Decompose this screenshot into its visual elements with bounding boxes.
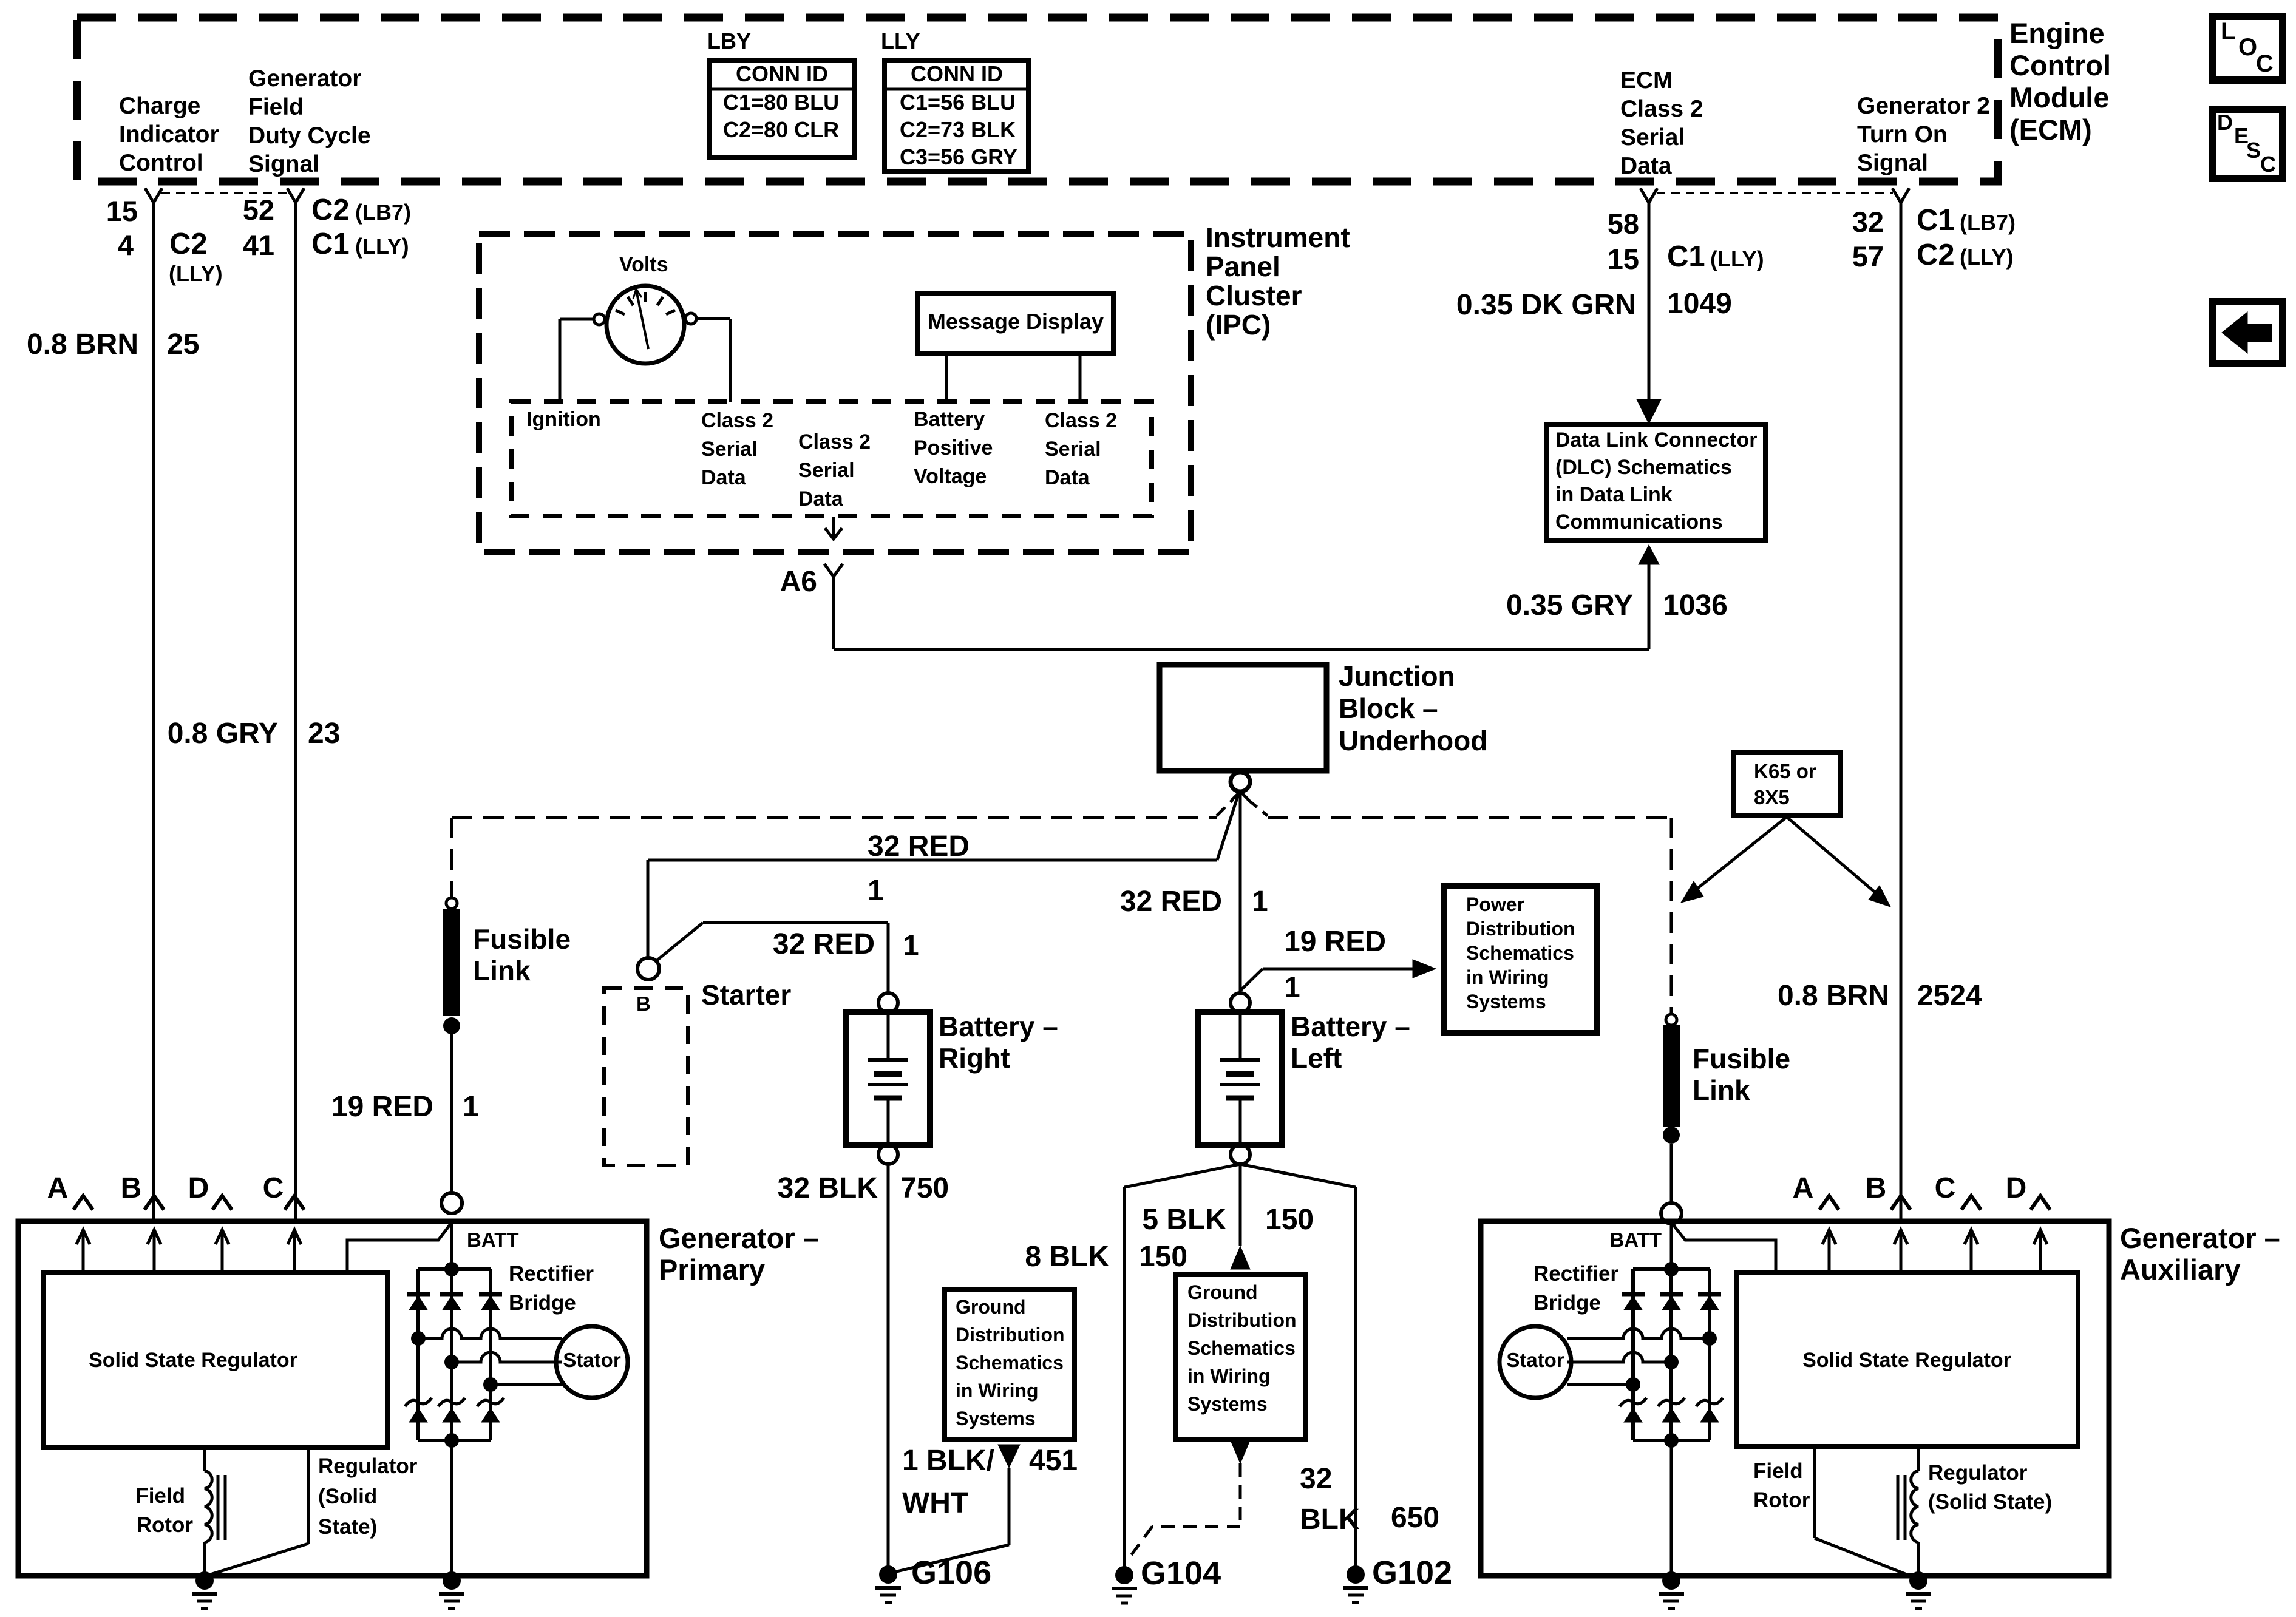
svg-text:Module: Module <box>2009 81 2109 114</box>
svg-text:Message Display: Message Display <box>928 309 1104 334</box>
svg-text:C2: C2 <box>169 228 208 260</box>
svg-text:451: 451 <box>1029 1445 1078 1477</box>
svg-text:CONN ID: CONN ID <box>911 61 1003 86</box>
svg-text:WHT: WHT <box>902 1487 968 1519</box>
svg-text:Class 2: Class 2 <box>1045 409 1117 432</box>
svg-text:BATT: BATT <box>467 1229 519 1251</box>
svg-text:Field: Field <box>1753 1459 1803 1483</box>
svg-text:A: A <box>47 1172 69 1204</box>
svg-text:BATT: BATT <box>1609 1229 1662 1251</box>
svg-text:Volts: Volts <box>619 253 668 276</box>
svg-text:C1=80 BLU: C1=80 BLU <box>723 90 839 115</box>
svg-text:C: C <box>1935 1172 1956 1204</box>
svg-text:A6: A6 <box>780 566 817 598</box>
svg-text:Regulator: Regulator <box>1928 1461 2028 1485</box>
svg-text:(IPC): (IPC) <box>1206 309 1271 341</box>
svg-text:Data: Data <box>1620 153 1672 179</box>
svg-text:Generator –: Generator – <box>2120 1222 2280 1254</box>
svg-text:K65 or: K65 or <box>1754 760 1816 782</box>
svg-text:Starter: Starter <box>701 979 791 1011</box>
svg-text:15: 15 <box>106 195 138 227</box>
svg-text:Regulator: Regulator <box>318 1454 418 1478</box>
svg-text:Bridge: Bridge <box>509 1291 576 1315</box>
svg-text:C3=56 GRY: C3=56 GRY <box>900 144 1017 169</box>
svg-text:(ECM): (ECM) <box>2009 114 2092 146</box>
svg-text:G106: G106 <box>911 1554 991 1591</box>
svg-text:0.35 DK GRN: 0.35 DK GRN <box>1456 289 1636 321</box>
svg-text:0.35 GRY: 0.35 GRY <box>1506 589 1633 622</box>
svg-text:B: B <box>1866 1172 1887 1204</box>
svg-text:32 RED: 32 RED <box>773 928 875 960</box>
svg-text:1: 1 <box>868 875 884 907</box>
svg-text:LLY: LLY <box>881 29 920 53</box>
svg-text:Communications: Communications <box>1555 510 1723 534</box>
svg-text:(LLY): (LLY) <box>355 234 409 259</box>
svg-text:D: D <box>2217 110 2233 135</box>
svg-text:C: C <box>2256 50 2274 77</box>
svg-text:Signal: Signal <box>248 151 319 177</box>
svg-text:C1: C1 <box>1917 204 1955 237</box>
svg-text:Link: Link <box>1693 1074 1750 1106</box>
svg-text:Fusible: Fusible <box>1693 1043 1790 1074</box>
svg-text:Battery –: Battery – <box>1291 1011 1410 1042</box>
svg-text:Data Link Connector: Data Link Connector <box>1555 429 1757 452</box>
svg-text:Generator: Generator <box>248 66 361 92</box>
svg-text:Voltage: Voltage <box>914 465 987 488</box>
svg-text:Solid State Regulator: Solid State Regulator <box>89 1349 297 1372</box>
svg-text:C1: C1 <box>311 228 350 260</box>
svg-text:Schematics: Schematics <box>1187 1337 1296 1359</box>
svg-text:Link: Link <box>473 955 531 986</box>
svg-text:Turn On: Turn On <box>1857 121 1948 147</box>
svg-text:in Wiring: in Wiring <box>1466 966 1549 988</box>
svg-text:CONN ID: CONN ID <box>736 61 828 86</box>
svg-text:4: 4 <box>118 229 134 261</box>
svg-text:Positive: Positive <box>914 436 993 459</box>
svg-text:Stator: Stator <box>563 1349 621 1371</box>
svg-text:8 BLK: 8 BLK <box>1025 1241 1109 1273</box>
svg-text:8X5: 8X5 <box>1754 786 1790 808</box>
svg-text:Class 2: Class 2 <box>1620 96 1703 122</box>
svg-text:Field: Field <box>248 94 304 120</box>
svg-text:1: 1 <box>463 1091 479 1123</box>
svg-text:Fusible: Fusible <box>473 923 571 955</box>
svg-text:Junction: Junction <box>1339 660 1455 692</box>
svg-text:0.8 BRN: 0.8 BRN <box>1778 980 1889 1012</box>
svg-text:Serial: Serial <box>1620 124 1685 151</box>
svg-text:32 RED: 32 RED <box>868 830 970 863</box>
svg-text:(LLY): (LLY) <box>1710 246 1764 271</box>
svg-text:Schematics: Schematics <box>1466 942 1574 964</box>
svg-text:Panel: Panel <box>1206 251 1280 282</box>
svg-text:Distribution: Distribution <box>956 1324 1065 1346</box>
svg-text:D: D <box>188 1172 209 1204</box>
svg-text:Data: Data <box>701 466 747 489</box>
svg-text:Serial: Serial <box>701 438 758 461</box>
svg-text:Data: Data <box>798 487 844 510</box>
svg-text:Control: Control <box>2009 49 2111 81</box>
svg-text:Generator 2: Generator 2 <box>1857 93 1990 119</box>
svg-text:in Wiring: in Wiring <box>956 1380 1039 1402</box>
svg-text:Block –: Block – <box>1339 693 1438 724</box>
svg-text:LBY: LBY <box>707 29 751 53</box>
svg-text:5 BLK: 5 BLK <box>1142 1204 1226 1236</box>
svg-text:Generator –: Generator – <box>659 1222 819 1254</box>
svg-text:(LB7): (LB7) <box>355 200 411 225</box>
svg-text:150: 150 <box>1265 1204 1314 1236</box>
svg-text:Class 2: Class 2 <box>798 430 871 453</box>
svg-text:32: 32 <box>1300 1463 1332 1495</box>
svg-text:D: D <box>2006 1172 2027 1204</box>
svg-text:1 BLK/: 1 BLK/ <box>902 1445 994 1477</box>
svg-text:Ignition: Ignition <box>526 408 601 431</box>
svg-text:Underhood: Underhood <box>1339 725 1487 756</box>
svg-text:C2: C2 <box>1917 239 1955 271</box>
svg-text:Rectifier: Rectifier <box>1533 1262 1618 1286</box>
svg-text:L: L <box>2221 18 2235 45</box>
svg-text:41: 41 <box>243 229 274 261</box>
svg-text:Rotor: Rotor <box>137 1513 194 1537</box>
svg-text:in Data Link: in Data Link <box>1555 483 1673 506</box>
svg-text:2524: 2524 <box>1917 980 1982 1012</box>
svg-text:B: B <box>121 1172 142 1204</box>
svg-text:S: S <box>2246 138 2261 163</box>
svg-text:150: 150 <box>1139 1241 1187 1273</box>
svg-text:(LLY): (LLY) <box>169 261 223 286</box>
svg-text:G102: G102 <box>1372 1554 1452 1591</box>
svg-text:Right: Right <box>939 1042 1010 1074</box>
svg-text:32: 32 <box>1852 206 1884 238</box>
svg-text:1: 1 <box>1252 886 1268 918</box>
svg-text:Distribution: Distribution <box>1187 1309 1297 1331</box>
svg-text:C1=56 BLU: C1=56 BLU <box>900 90 1016 115</box>
svg-text:Control: Control <box>119 150 203 176</box>
svg-text:(DLC) Schematics: (DLC) Schematics <box>1555 456 1732 479</box>
svg-text:Primary: Primary <box>659 1253 765 1286</box>
svg-text:52: 52 <box>243 194 274 226</box>
svg-text:Rectifier: Rectifier <box>509 1262 594 1286</box>
svg-text:1: 1 <box>903 930 919 962</box>
svg-text:1036: 1036 <box>1663 589 1728 622</box>
svg-text:Serial: Serial <box>798 459 855 482</box>
svg-text:Auxiliary: Auxiliary <box>2120 1253 2241 1286</box>
svg-text:15: 15 <box>1608 243 1639 275</box>
svg-text:C2=73 BLK: C2=73 BLK <box>900 117 1016 142</box>
svg-text:(Solid State): (Solid State) <box>1928 1490 2052 1514</box>
svg-text:Distribution: Distribution <box>1466 918 1575 940</box>
svg-text:BLK: BLK <box>1300 1503 1360 1536</box>
svg-text:in Wiring: in Wiring <box>1187 1365 1271 1387</box>
svg-text:B: B <box>636 992 651 1015</box>
svg-text:Charge: Charge <box>119 93 200 119</box>
svg-text:23: 23 <box>308 717 340 750</box>
svg-text:0.8 GRY: 0.8 GRY <box>168 717 278 750</box>
svg-text:(LB7): (LB7) <box>1960 210 2016 235</box>
svg-text:Stator: Stator <box>1506 1349 1564 1371</box>
svg-text:C1: C1 <box>1667 240 1705 273</box>
svg-text:Engine: Engine <box>2009 17 2105 49</box>
svg-text:Ground: Ground <box>956 1296 1026 1318</box>
svg-text:32 RED: 32 RED <box>1120 886 1222 918</box>
svg-text:25: 25 <box>167 328 199 361</box>
svg-text:G104: G104 <box>1141 1555 1221 1592</box>
svg-text:Left: Left <box>1291 1042 1342 1074</box>
svg-text:A: A <box>1793 1172 1814 1204</box>
svg-text:Rotor: Rotor <box>1753 1488 1810 1512</box>
svg-text:Field: Field <box>135 1484 185 1508</box>
svg-text:State): State) <box>318 1515 377 1539</box>
svg-text:19 RED: 19 RED <box>331 1091 433 1123</box>
svg-text:Systems: Systems <box>956 1408 1036 1429</box>
svg-text:Schematics: Schematics <box>956 1352 1064 1374</box>
svg-text:Class 2: Class 2 <box>701 409 773 432</box>
svg-text:Signal: Signal <box>1857 150 1928 176</box>
svg-text:Systems: Systems <box>1466 991 1546 1012</box>
svg-text:Serial: Serial <box>1045 438 1101 461</box>
svg-text:57: 57 <box>1852 240 1884 273</box>
svg-text:Systems: Systems <box>1187 1393 1268 1415</box>
svg-text:C: C <box>2260 152 2276 177</box>
svg-text:58: 58 <box>1608 208 1639 240</box>
svg-text:1049: 1049 <box>1667 288 1732 320</box>
svg-text:Indicator: Indicator <box>119 121 219 147</box>
svg-text:19 RED: 19 RED <box>1284 926 1386 958</box>
svg-text:750: 750 <box>900 1172 949 1204</box>
svg-text:ECM: ECM <box>1620 67 1673 93</box>
svg-text:O: O <box>2238 34 2257 61</box>
svg-text:C2=80 CLR: C2=80 CLR <box>723 117 839 142</box>
svg-text:1: 1 <box>1284 972 1300 1004</box>
svg-text:(Solid: (Solid <box>318 1485 377 1508</box>
svg-text:Instrument: Instrument <box>1206 222 1350 253</box>
svg-text:Battery: Battery <box>914 408 985 431</box>
svg-text:Battery –: Battery – <box>939 1011 1058 1042</box>
svg-text:Power: Power <box>1466 893 1524 915</box>
svg-text:Data: Data <box>1045 466 1090 489</box>
svg-text:Cluster: Cluster <box>1206 280 1302 311</box>
svg-text:Duty Cycle: Duty Cycle <box>248 123 371 149</box>
svg-text:Ground: Ground <box>1187 1281 1258 1303</box>
svg-text:C: C <box>263 1172 284 1204</box>
svg-text:(LLY): (LLY) <box>1960 245 2014 269</box>
svg-text:Bridge: Bridge <box>1533 1291 1601 1315</box>
svg-text:650: 650 <box>1391 1502 1439 1534</box>
svg-text:Solid State Regulator: Solid State Regulator <box>1802 1349 2011 1372</box>
svg-text:C2: C2 <box>311 194 350 226</box>
svg-text:32 BLK: 32 BLK <box>778 1172 878 1204</box>
svg-text:0.8 BRN: 0.8 BRN <box>27 328 138 361</box>
